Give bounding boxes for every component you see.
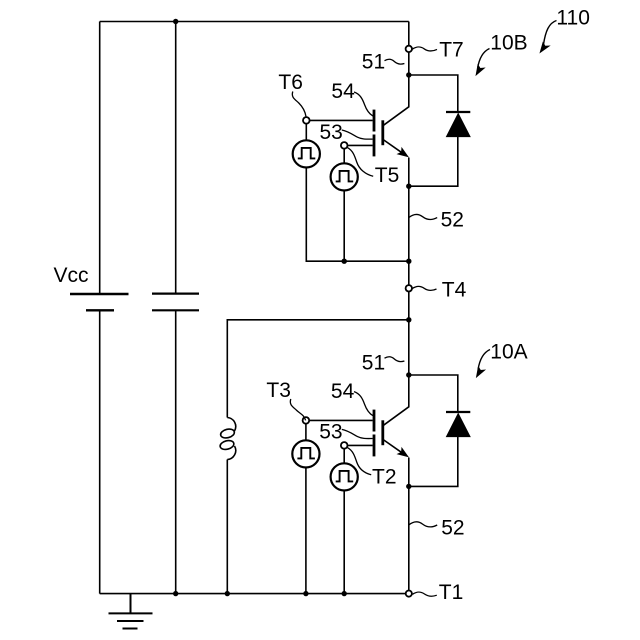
label T6 (278, 71, 306, 117)
junction top rail capacitor (173, 19, 178, 24)
svg-text:T1: T1 (439, 581, 464, 604)
svg-text:T6: T6 (278, 71, 303, 94)
wire phase top (408, 22, 410, 46)
junction inductor bottom rail (225, 591, 230, 596)
junction diode 10A top (406, 372, 411, 377)
wire 10A emitter to T1 (408, 486, 410, 590)
svg-text:53: 53 (319, 420, 342, 443)
wire T3 gate 54 (309, 419, 372, 421)
diode D-10B (446, 112, 470, 137)
junction capacitor bottom rail (173, 591, 178, 596)
label 51 (10B) (362, 51, 405, 74)
label 52 (10A) (409, 517, 465, 540)
wire inductor branch (227, 320, 408, 418)
wire T2 gate 53 (348, 444, 373, 446)
wire pulse V2 to bottom rail (343, 491, 345, 594)
capacitor C (152, 294, 199, 311)
wire emitter 10A (408, 458, 410, 487)
label T7 (412, 39, 463, 62)
wire diode 10A branch bottom (409, 437, 458, 487)
wire battery branch bottom (99, 310, 101, 593)
wire pulse V5 to gate return (343, 191, 345, 262)
wire inductor bottom (226, 460, 228, 594)
label 110 (540, 6, 590, 52)
junction pulse V2 bottom rail (342, 591, 347, 596)
junction inductor branch (406, 317, 411, 322)
svg-text:10B: 10B (490, 31, 527, 54)
wire T3 to pulse source V3 (305, 424, 307, 441)
wire phase mid (408, 320, 410, 375)
wire T5 gate 53 (348, 144, 373, 146)
svg-text:51: 51 (362, 51, 385, 74)
svg-text:T5: T5 (375, 164, 400, 187)
terminal T3 (303, 417, 310, 424)
junction diode 10A bottom (406, 484, 411, 489)
wire T6 to pulse source V6 (305, 124, 307, 141)
svg-text:Vcc: Vcc (54, 264, 89, 287)
transistor Q-10B (gates 53/54) (374, 75, 409, 157)
pulse source V5 (10B gate drive lower) (331, 163, 358, 190)
wire diode 10B branch bottom (409, 137, 458, 187)
wire T4 to inductor node (408, 292, 410, 320)
svg-text:51: 51 (362, 351, 385, 374)
svg-text:T4: T4 (442, 279, 467, 302)
label 53 (10A) (319, 420, 372, 443)
junction diode 10B top (406, 72, 411, 77)
terminal T6 (303, 117, 310, 124)
wire capacitor bottom (175, 310, 177, 593)
wire 10B emitter to T4 (408, 186, 410, 285)
terminal T5 (341, 142, 348, 149)
svg-text:T2: T2 (372, 466, 397, 489)
label 10A (477, 341, 528, 377)
label 52 (10B) (409, 208, 464, 231)
wire capacitor top (175, 22, 177, 294)
svg-text:110: 110 (556, 6, 589, 29)
terminal T1 (406, 591, 412, 597)
svg-text:T3: T3 (266, 379, 291, 402)
label T3 (266, 379, 305, 420)
ground (109, 594, 153, 629)
svg-text:53: 53 (320, 121, 343, 144)
label T2 (347, 448, 396, 489)
label T5 (347, 148, 399, 187)
svg-text:52: 52 (441, 208, 464, 231)
svg-text:10A: 10A (490, 341, 527, 364)
wire T7 to node 51 (408, 52, 410, 75)
wire diode 10A branch top (409, 375, 458, 412)
wire battery branch top (99, 22, 101, 295)
pulse source V6 (10B gate drive upper) (293, 140, 320, 167)
label T4 (412, 279, 466, 302)
label 53 (10B) (320, 121, 373, 144)
wire diode 10B branch top (409, 75, 458, 112)
wire T6 gate 54 (310, 119, 373, 121)
diode D-10A (446, 412, 470, 437)
wire top rail (100, 21, 409, 23)
label 54 (10A) (331, 380, 373, 416)
label 51 (10A) (362, 351, 405, 374)
label 10B (476, 31, 527, 75)
terminal T2 (341, 442, 348, 449)
svg-text:52: 52 (441, 517, 464, 540)
battery Vcc (70, 294, 129, 310)
wire bottom rail (100, 593, 406, 595)
wire emitter 10B (408, 158, 410, 187)
svg-text:54: 54 (331, 80, 355, 103)
pulse source V3 (10A gate drive upper) (292, 440, 319, 467)
wire T2 to pulse source V2 (343, 449, 345, 464)
svg-text:T7: T7 (439, 39, 464, 62)
junction pulse V5 return (342, 259, 347, 264)
terminal T4 (406, 285, 412, 291)
junction gate return 10B (406, 259, 411, 264)
wire gate return 10B (306, 168, 409, 262)
pulse source V2 (10A gate drive lower) (331, 463, 358, 490)
transistor Q-10A (gates 53/54) (374, 375, 409, 457)
label T1 (413, 581, 464, 604)
junction pulse V3 bottom rail (303, 591, 308, 596)
terminal T7 (406, 46, 412, 52)
label 54 (10B) (331, 80, 373, 116)
wire T5 to pulse source V5 (343, 149, 345, 164)
svg-text:54: 54 (331, 380, 355, 403)
inductor L (219, 418, 236, 460)
junction diode 10B bottom (406, 184, 411, 189)
wire pulse V3 to bottom rail (305, 468, 307, 594)
